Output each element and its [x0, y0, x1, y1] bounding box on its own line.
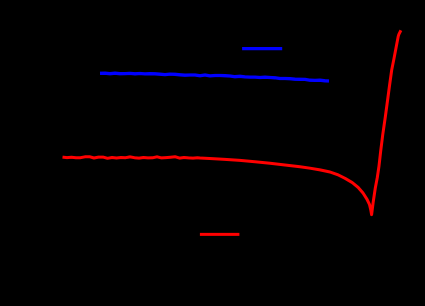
red legend marker [200, 233, 240, 236]
red data curve [63, 30, 401, 214]
blue legend marker [242, 47, 282, 50]
blue data curve [100, 73, 329, 81]
